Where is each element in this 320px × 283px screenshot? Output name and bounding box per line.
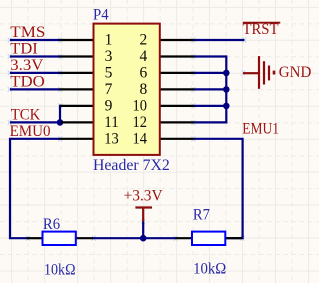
svg-text:EMU0: EMU0 [10,123,51,140]
svg-text:TRST: TRST [243,21,279,38]
svg-text:P4: P4 [93,7,109,24]
svg-text:6: 6 [139,65,147,82]
svg-text:9: 9 [105,98,113,115]
svg-text:TCK: TCK [11,107,41,124]
svg-text:3: 3 [105,48,113,65]
svg-text:+3.3V: +3.3V [124,188,163,205]
svg-text:8: 8 [139,81,147,98]
svg-text:13: 13 [104,131,119,148]
svg-text:R6: R6 [43,216,60,233]
svg-text:EMU1: EMU1 [242,121,279,138]
svg-text:10kΩ: 10kΩ [44,261,76,278]
svg-text:12: 12 [133,114,148,131]
svg-text:7: 7 [105,81,113,98]
svg-text:1: 1 [105,32,113,49]
svg-text:2: 2 [139,32,147,49]
svg-text:11: 11 [104,114,119,131]
svg-text:3.3V: 3.3V [10,57,43,74]
svg-text:GND: GND [279,64,312,81]
svg-text:10kΩ: 10kΩ [193,260,226,277]
svg-text:14: 14 [133,131,148,148]
svg-text:R7: R7 [193,207,210,224]
svg-text:TDI: TDI [10,41,38,58]
svg-text:Header 7X2: Header 7X2 [93,157,170,174]
svg-text:4: 4 [139,48,147,65]
svg-text:TDO: TDO [10,74,45,91]
svg-text:TMS: TMS [10,24,45,41]
svg-text:5: 5 [105,65,113,82]
svg-text:10: 10 [133,98,148,115]
